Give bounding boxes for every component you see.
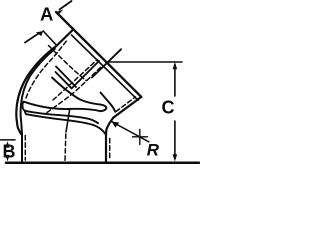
dimension C vertical line lower: [174, 121, 176, 159]
dashed bore line bottom-left: [24, 136, 26, 161]
dashed hidden line bottom right: [109, 139, 111, 161]
radius R leader line: [112, 122, 149, 142]
teardrop slot upper line: [24, 102, 101, 112]
bore silhouette rising line: [72, 61, 100, 89]
dashed bevel line along bottom-right edge: [116, 97, 136, 112]
elbow extrados band inner line and left edge of bottom end: [21, 49, 55, 162]
wire baseline ground line: [6, 161, 199, 164]
dimension arrow A upper: [60, 1, 72, 10]
teardrop slot right tip cap: [100, 105, 106, 112]
node axis centerline segment through face midpoint: [92, 49, 121, 77]
dimension arrow A lower: [25, 34, 39, 43]
radial seam line near bottom: [66, 111, 70, 133]
teardrop slot approach upper curve M2: [52, 78, 101, 105]
elbow outer extrados band outer line: [16, 46, 56, 134]
extension line L2 for A: [43, 31, 56, 45]
radius center cross: [133, 130, 148, 145]
arrowhead C down: [173, 154, 178, 161]
dashed hidden bore line via: [53, 60, 98, 101]
dimension C vertical line upper: [174, 65, 176, 97]
dashed hidden arc inside extrados band: [26, 40, 68, 99]
teardrop slot lower line extending to intrados: [25, 111, 98, 123]
arrowhead C up: [173, 62, 178, 69]
arrowhead B down: [5, 155, 9, 161]
svg-text:B: B: [3, 142, 16, 162]
teardrop slot left cap: [22, 102, 26, 115]
arrowhead R: [112, 122, 119, 128]
stub top-left side edge: [56, 29, 73, 46]
dashed radial continuation: [64, 134, 67, 161]
arrowhead B up: [5, 141, 9, 147]
dimension B top bar: [1, 139, 16, 141]
inner bore line right: [101, 93, 116, 112]
intrados arc to bottom right vertical edge: [106, 118, 114, 162]
svg-text:A: A: [40, 3, 53, 24]
svg-text:C: C: [162, 98, 175, 118]
stub bottom-right edge: [114, 97, 142, 118]
svg-text:R: R: [147, 140, 160, 159]
inner silhouette line M1a: [56, 67, 76, 88]
inner silhouette line M1b: [56, 72, 72, 88]
teardrop slot lower second line extending to intrados: [26, 114, 106, 134]
dimension C horizontal extension line: [108, 61, 182, 63]
dashed hidden bore line vib: [47, 67, 102, 113]
face line with extension to A arrow: [56, 12, 141, 97]
face bevel land line: [72, 35, 139, 100]
dashed line D2 across stub: [49, 46, 87, 81]
